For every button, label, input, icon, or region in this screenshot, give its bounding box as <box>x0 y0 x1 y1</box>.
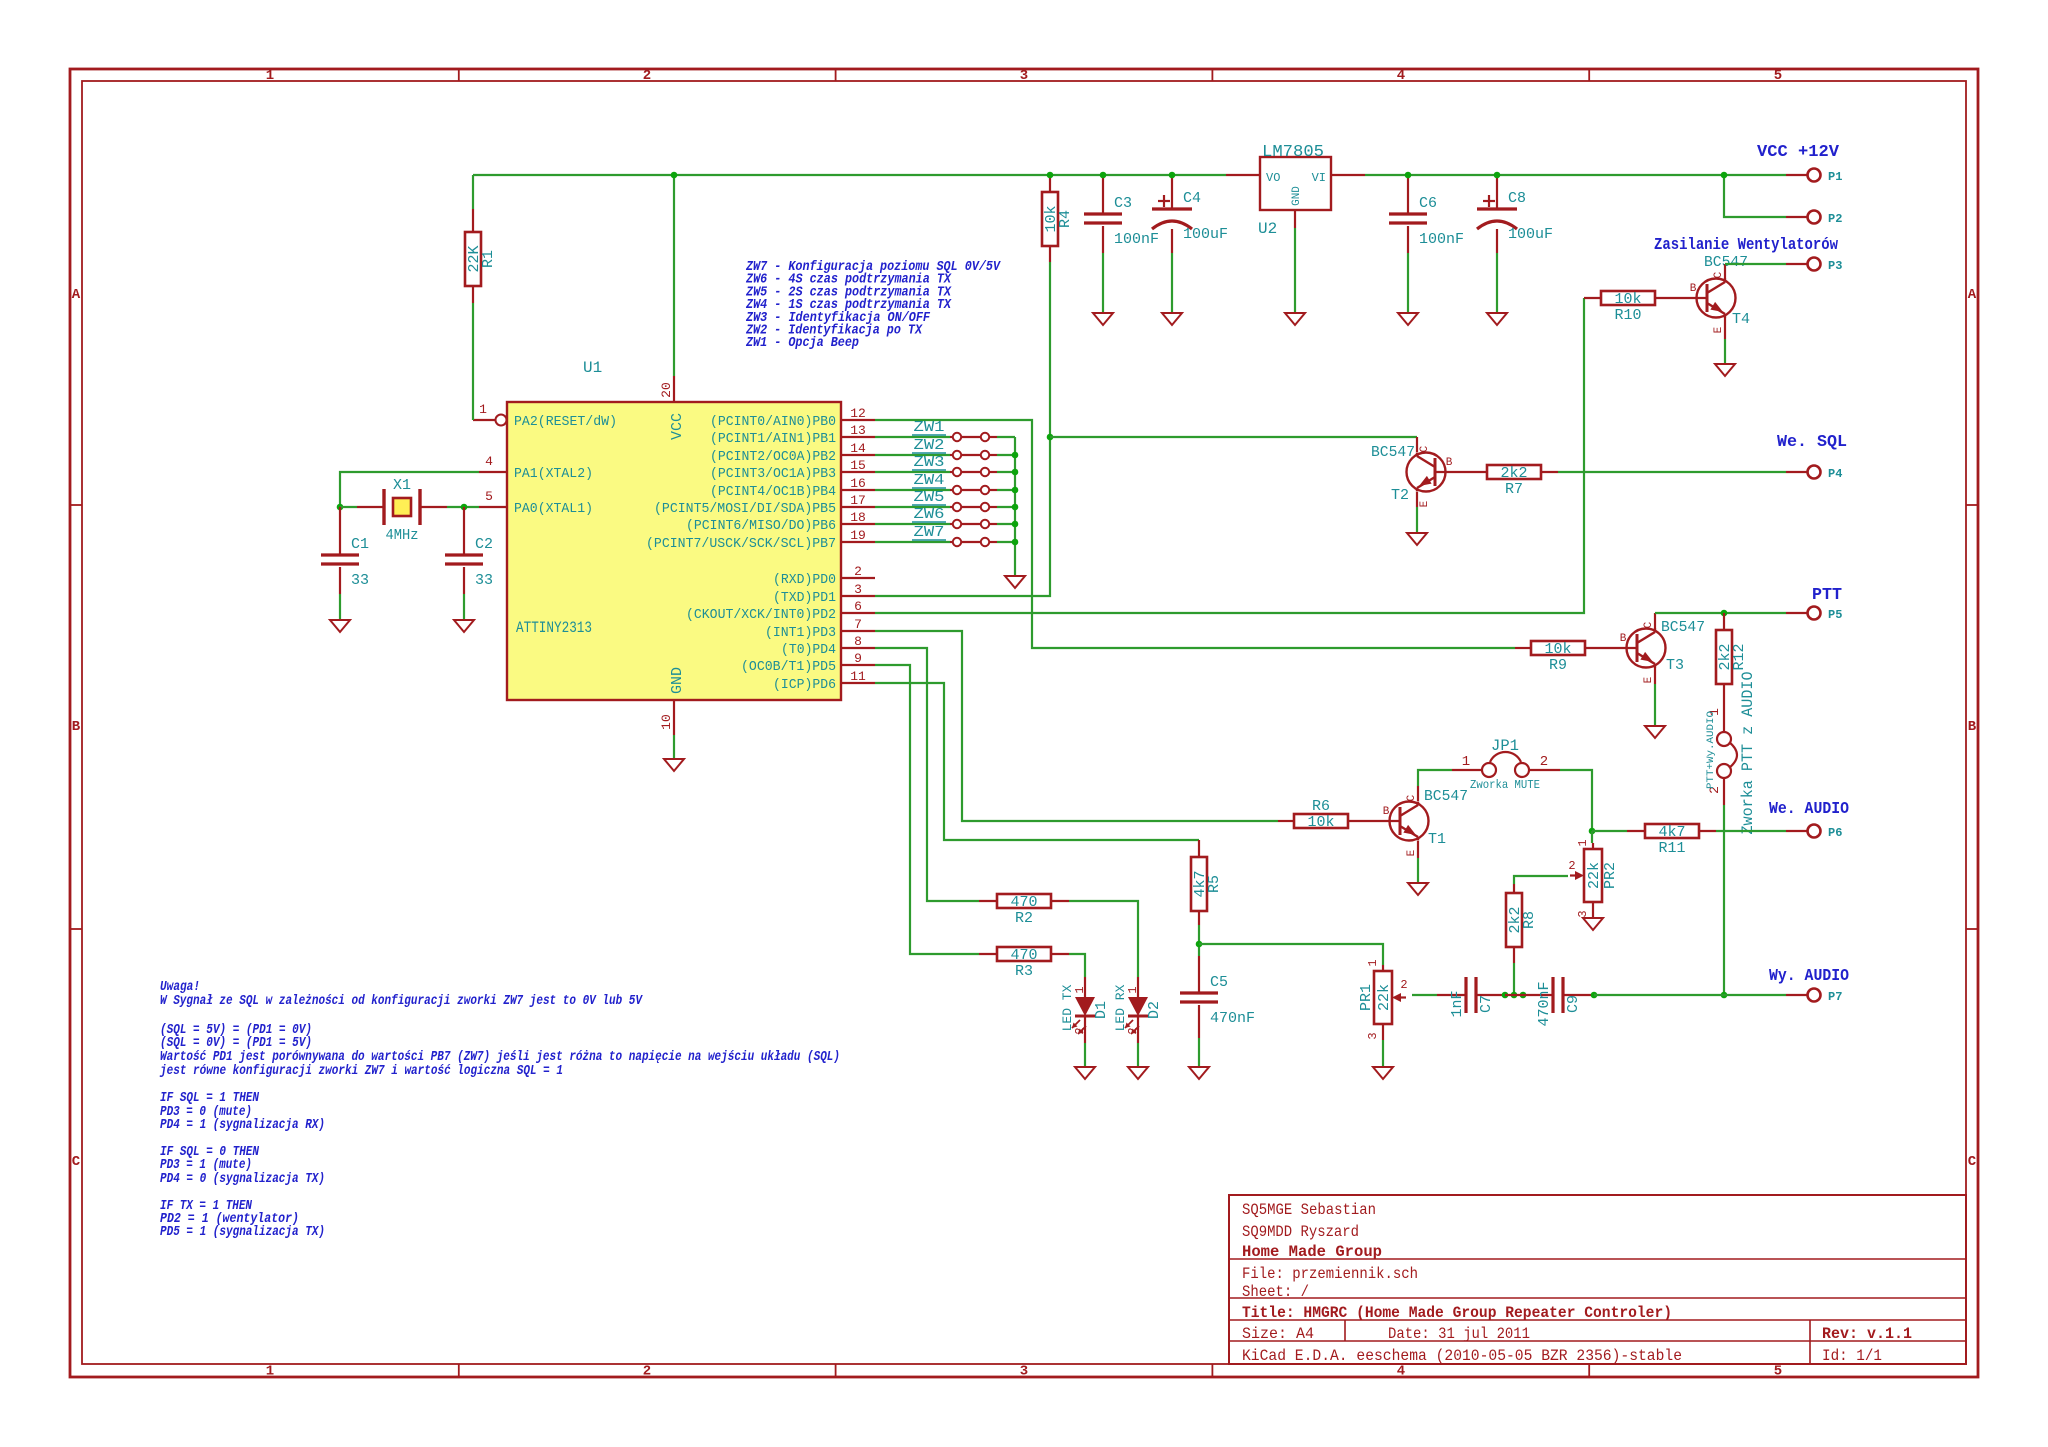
resistor R7 2k2 <box>1435 471 1558 473</box>
svg-text:C: C <box>1713 271 1725 278</box>
svg-text:PR2: PR2 <box>1602 862 1619 889</box>
wire T4 emitter to ground <box>1724 317 1726 339</box>
svg-text:PD4 = 1 (sygnalizacja RX): PD4 = 1 (sygnalizacja RX) <box>160 1118 325 1133</box>
wire pin6 to R10 <box>875 298 1584 613</box>
svg-text:470nF: 470nF <box>1210 1010 1255 1027</box>
svg-text:(CKOUT/XCK/INT0)PD2: (CKOUT/XCK/INT0)PD2 <box>686 607 836 623</box>
wire audio node to R11 <box>1592 830 1627 832</box>
svg-text:C1: C1 <box>351 536 369 553</box>
ground D2 <box>1128 1067 1148 1079</box>
svg-text:33: 33 <box>351 572 369 589</box>
svg-text:5: 5 <box>1774 1364 1782 1380</box>
label ZW6 <box>912 506 946 523</box>
svg-text:1: 1 <box>479 402 487 417</box>
svg-text:Date: 31 jul 2011: Date: 31 jul 2011 <box>1388 1325 1530 1343</box>
svg-text:17: 17 <box>850 493 866 508</box>
U1 pin 18 (PCINT6/MISO/DO)PB6 <box>686 510 875 534</box>
svg-text:1: 1 <box>1576 839 1590 846</box>
wire JP1 to audio node <box>1560 770 1592 831</box>
resistor R10 10k <box>1584 297 1707 299</box>
U1 pin 12 (PCINT0/AIN0)PB0 <box>710 406 875 430</box>
svg-text:C: C <box>1968 1154 1977 1170</box>
ground U1 <box>664 759 684 771</box>
wire PA1 to crystal left <box>340 472 479 507</box>
svg-text:C8: C8 <box>1508 190 1526 207</box>
wire U1 to jumper ZW2 <box>875 454 950 456</box>
resistor R11 4k7 <box>1627 830 1716 832</box>
junction crystal right <box>461 504 468 511</box>
wire T2 emitter to ground <box>1416 492 1418 507</box>
capacitor C5 470nF <box>1198 956 1200 1038</box>
junction C8 top <box>1494 172 1501 179</box>
title block outline <box>1229 1195 1966 1364</box>
svg-text:Id: 1/1: Id: 1/1 <box>1822 1347 1882 1365</box>
capacitor C2 33 <box>463 507 465 594</box>
label ZW7 <box>912 524 946 541</box>
svg-text:GND: GND <box>1291 186 1303 206</box>
svg-text:C: C <box>1643 621 1655 628</box>
wire C4 to ground <box>1171 253 1173 313</box>
junction R8 bottom <box>1511 992 1518 999</box>
junction C7 right <box>1502 992 1509 999</box>
svg-text:(PCINT2/OC0A)PB2: (PCINT2/OC0A)PB2 <box>710 449 836 465</box>
wire pin7 to R6 <box>875 631 1278 821</box>
junction C3 top <box>1100 172 1107 179</box>
ground C2 <box>454 620 474 632</box>
svg-text:1: 1 <box>1126 986 1140 993</box>
U1 pin 16 (PCINT4/OC1B)PB4 <box>710 476 875 500</box>
U1 pin 20 VCC <box>659 376 674 402</box>
svg-text:KiCad E.D.A. eeschema (2010-0: KiCad E.D.A. eeschema (2010-05-05 BZR 23… <box>1242 1347 1682 1365</box>
connector P5 <box>1786 607 1842 623</box>
potentiometer PR2 22k <box>1576 839 1593 849</box>
svg-text:D2: D2 <box>1146 1001 1163 1019</box>
wire PR2 wiper to R8 <box>1514 876 1568 884</box>
svg-text:jest równe konfiguracji zworki: jest równe konfiguracji zworki ZW7 i war… <box>159 1064 563 1079</box>
svg-text:T2: T2 <box>1391 487 1409 504</box>
svg-text:10k: 10k <box>1544 641 1571 658</box>
svg-text:Rev: v.1.1: Rev: v.1.1 <box>1822 1325 1912 1343</box>
svg-text:Zasilanie Wentylatorów: Zasilanie Wentylatorów <box>1654 236 1839 255</box>
U1 pin 5 PA0(XTAL1) <box>479 489 593 517</box>
wire U2 GND to ground <box>1294 228 1296 313</box>
jumper JP1 Zworka MUTE <box>1452 737 1560 792</box>
svg-text:Title: HMGRC (Home Made Group: Title: HMGRC (Home Made Group Repeater C… <box>1242 1304 1672 1322</box>
wire C6 to ground <box>1407 253 1409 313</box>
wire ZW4 to bus <box>997 489 1015 491</box>
svg-text:P6: P6 <box>1828 826 1842 840</box>
U1 pin 17 (PCINT5/MOSI/DI/SDA)PB5 <box>654 493 875 517</box>
wire R7 to P4 <box>1558 471 1786 473</box>
svg-text:PA1(XTAL2): PA1(XTAL2) <box>514 466 593 482</box>
U1 pin 15 (PCINT3/OC1A)PB3 <box>710 458 875 482</box>
junction P2 drop <box>1721 172 1728 179</box>
svg-text:2: 2 <box>1568 859 1575 873</box>
capacitor C9 470nF <box>1505 994 1594 996</box>
wire D2 to ground <box>1137 1016 1139 1043</box>
U1 pin 19 (PCINT7/USCK/SCK/SCL)PB7 <box>646 528 875 552</box>
wire C5 node to PR1 <box>1199 944 1383 965</box>
svg-text:R8: R8 <box>1521 911 1538 929</box>
svg-text:B: B <box>1446 457 1453 469</box>
svg-text:P5: P5 <box>1828 608 1842 622</box>
svg-text:C4: C4 <box>1183 190 1201 207</box>
svg-text:P4: P4 <box>1828 467 1842 481</box>
svg-text:R4: R4 <box>1057 210 1074 228</box>
ground C3 <box>1093 313 1113 325</box>
svg-text:C: C <box>1406 794 1418 801</box>
svg-text:1: 1 <box>1366 959 1380 966</box>
svg-text:GND: GND <box>669 667 686 694</box>
svg-text:9: 9 <box>854 651 862 666</box>
LED D2 LED RX <box>1137 977 1139 997</box>
svg-text:1: 1 <box>266 68 274 84</box>
ground ZW bus <box>1005 576 1025 588</box>
connector P7 <box>1786 989 1842 1005</box>
svg-text:4: 4 <box>1397 1364 1405 1380</box>
wire U1 to jumper ZW4 <box>875 489 950 491</box>
wire ZW6 to bus <box>997 523 1015 525</box>
svg-text:PTT+Wy.AUDIO: PTT+Wy.AUDIO <box>1706 711 1717 789</box>
svg-text:ZW6: ZW6 <box>914 506 945 523</box>
svg-text:(T0)PD4: (T0)PD4 <box>781 642 836 658</box>
svg-text:Wy. AUDIO: Wy. AUDIO <box>1769 967 1849 986</box>
junction VCC pin20 <box>671 172 678 179</box>
svg-text:P2: P2 <box>1828 212 1842 226</box>
svg-text:Size: A4: Size: A4 <box>1242 1325 1314 1343</box>
U1 pin 9 (OC0B/T1)PD5 <box>741 651 875 675</box>
jumper ZW2 <box>950 451 997 459</box>
label ZW1 <box>912 419 946 436</box>
svg-text:SQ5MGE Sebastian: SQ5MGE Sebastian <box>1242 1201 1376 1219</box>
junction ZW bus <box>1012 487 1019 494</box>
svg-text:JP1: JP1 <box>1491 737 1519 755</box>
svg-text:5: 5 <box>1774 68 1782 84</box>
svg-text:SQ9MDD Ryszard: SQ9MDD Ryszard <box>1242 1223 1359 1241</box>
svg-text:3: 3 <box>1366 1032 1380 1039</box>
wire crystal left short <box>340 506 357 508</box>
wire R3 to D1 <box>1069 954 1085 977</box>
svg-text:ZW1: ZW1 <box>914 419 945 436</box>
svg-text:4MHz: 4MHz <box>386 527 419 544</box>
svg-text:LM7805: LM7805 <box>1262 143 1324 162</box>
transistor T2 BC547 mirrored <box>1416 437 1418 452</box>
svg-text:8: 8 <box>854 634 862 649</box>
svg-text:(PCINT4/OC1B)PB4: (PCINT4/OC1B)PB4 <box>710 484 836 500</box>
wire C8 to ground <box>1496 253 1498 313</box>
wire R2 to D2 <box>1069 901 1138 977</box>
svg-text:ZW5: ZW5 <box>914 489 945 506</box>
wire PR2 pin1 from audio node <box>1591 831 1593 843</box>
ground C5 <box>1189 1067 1209 1079</box>
svg-text:C2: C2 <box>475 536 493 553</box>
svg-text:D1: D1 <box>1093 1001 1110 1019</box>
svg-text:5: 5 <box>485 489 493 504</box>
U1 pin 13 (PCINT1/AIN1)PB1 <box>710 423 875 447</box>
svg-text:PD5 = 1 (sygnalizacja TX): PD5 = 1 (sygnalizacja TX) <box>160 1225 325 1240</box>
svg-text:E: E <box>1713 326 1725 333</box>
capacitor C7 1nF <box>1437 994 1505 996</box>
junction ZW bus <box>1012 521 1019 528</box>
svg-text:X1: X1 <box>393 477 411 494</box>
wire ZW7 to bus <box>997 541 1015 543</box>
transistor T3 BC547 <box>1620 621 1666 683</box>
svg-text:2: 2 <box>1540 754 1548 770</box>
svg-text:T3: T3 <box>1666 657 1684 674</box>
wire C2 to ground <box>463 594 465 620</box>
svg-text:470: 470 <box>1010 947 1037 964</box>
wire U1 to jumper ZW1 <box>875 436 950 438</box>
svg-text:22k: 22k <box>1376 984 1393 1011</box>
svg-text:10k: 10k <box>1614 291 1641 308</box>
LED D1 LED TX <box>1084 977 1086 997</box>
resistor R6 10k <box>1278 820 1400 822</box>
svg-text:R3: R3 <box>1015 963 1033 980</box>
svg-text:Home Made Group: Home Made Group <box>1242 1243 1382 1261</box>
svg-text:2: 2 <box>643 1364 651 1380</box>
svg-text:A: A <box>1968 287 1977 303</box>
svg-text:ZW4: ZW4 <box>914 472 945 489</box>
ground C1 <box>330 620 350 632</box>
svg-text:E: E <box>1419 500 1431 507</box>
wire pin12 to R9 <box>875 420 1515 648</box>
wire U1 to jumper ZW7 <box>875 541 950 543</box>
wire R8 to Wy AUDIO row <box>1513 963 1515 995</box>
svg-text:R7: R7 <box>1505 481 1523 498</box>
svg-text:BC547: BC547 <box>1661 619 1705 636</box>
svg-text:16: 16 <box>850 476 866 491</box>
connector P6 <box>1786 825 1842 841</box>
svg-text:10k: 10k <box>1307 814 1334 831</box>
svg-text:R12: R12 <box>1731 643 1748 670</box>
svg-text:VO: VO <box>1266 171 1280 185</box>
connector P4 <box>1786 466 1842 482</box>
potentiometer PR1 22k <box>1366 959 1383 971</box>
jumper ZW4 <box>950 486 997 494</box>
regulator U2 LM7805 <box>1226 143 1365 238</box>
svg-text:Uwaga!: Uwaga! <box>160 980 200 995</box>
ground C6 <box>1398 313 1418 325</box>
ground C8 <box>1487 313 1507 325</box>
svg-text:E: E <box>1406 849 1418 856</box>
svg-text:T1: T1 <box>1428 831 1446 848</box>
PR1 pin3 ground <box>1366 1024 1383 1040</box>
wire T4 collector to P3 <box>1724 264 1726 279</box>
junction ZW bus <box>1012 539 1019 546</box>
svg-text:1: 1 <box>1462 754 1470 770</box>
label ZW5 <box>912 489 946 506</box>
svg-text:7: 7 <box>854 617 862 632</box>
wire T3 emitter to ground <box>1654 667 1656 684</box>
svg-text:2: 2 <box>854 564 862 579</box>
svg-text:PD4 = 0 (sygnalizacja TX): PD4 = 0 (sygnalizacja TX) <box>160 1172 325 1187</box>
transistor T4 BC547 <box>1690 271 1736 333</box>
capacitor C4 100uF <box>1171 175 1173 253</box>
ground D1 <box>1075 1067 1095 1079</box>
svg-text:1: 1 <box>266 1364 274 1380</box>
resistor R2 470 <box>979 900 1069 902</box>
svg-text:C3: C3 <box>1114 195 1132 212</box>
svg-text:C7: C7 <box>1478 995 1495 1013</box>
svg-text:T4: T4 <box>1732 311 1750 328</box>
svg-text:BC547: BC547 <box>1371 444 1415 461</box>
svg-text:(ICP)PD6: (ICP)PD6 <box>773 677 836 693</box>
svg-text:(PCINT6/MISO/DO)PB6: (PCINT6/MISO/DO)PB6 <box>686 518 836 534</box>
svg-text:(RXD)PD0: (RXD)PD0 <box>773 572 836 588</box>
svg-text:470: 470 <box>1010 894 1037 911</box>
svg-text:ZW7: ZW7 <box>914 524 945 541</box>
svg-text:ATTINY2313: ATTINY2313 <box>516 619 592 637</box>
junction C5 node <box>1196 941 1203 948</box>
svg-text:(PCINT3/OC1A)PB3: (PCINT3/OC1A)PB3 <box>710 466 836 482</box>
svg-text:U1: U1 <box>583 359 602 377</box>
label ZW3 <box>912 454 946 471</box>
U1 pin 14 (PCINT2/OC0A)PB2 <box>710 441 875 465</box>
svg-text:Wartość PD1 jest porównywana d: Wartość PD1 jest porównywana do wartości… <box>160 1050 840 1065</box>
svg-text:100uF: 100uF <box>1183 226 1228 243</box>
svg-text:3: 3 <box>854 582 862 597</box>
svg-text:R10: R10 <box>1614 307 1641 324</box>
wire ZW ground bus <box>1014 437 1016 576</box>
svg-text:15: 15 <box>850 458 866 473</box>
svg-text:R11: R11 <box>1658 840 1685 857</box>
U1 pin 1 PA2(RESET/dW) <box>473 402 617 430</box>
svg-text:Zworka PTT z AUDIO: Zworka PTT z AUDIO <box>1739 672 1757 835</box>
junction ZW bus <box>1012 469 1019 476</box>
svg-text:B: B <box>1690 283 1697 295</box>
svg-text:1: 1 <box>1073 986 1087 993</box>
svg-text:2k2: 2k2 <box>1500 465 1527 482</box>
wire VCC rail right <box>1365 174 1786 176</box>
wire ZW2 to bus <box>997 454 1015 456</box>
label ZW4 <box>912 472 946 489</box>
junction ZW bus <box>1012 504 1019 511</box>
junction Wy AUDIO <box>1721 992 1728 999</box>
svg-text:File: przemiennik.sch: File: przemiennik.sch <box>1242 1265 1418 1283</box>
wire C3 to ground <box>1102 253 1104 313</box>
svg-text:P1: P1 <box>1828 170 1842 184</box>
svg-text:VI: VI <box>1312 171 1326 185</box>
svg-text:22k: 22k <box>1586 862 1603 889</box>
wire R1 top from rail <box>472 175 474 209</box>
svg-text:C9: C9 <box>1565 995 1582 1013</box>
junction C9 right <box>1591 992 1598 999</box>
svg-text:Sheet: /: Sheet: / <box>1242 1283 1309 1301</box>
wire D1 to ground <box>1084 1016 1086 1043</box>
ground T4 <box>1715 364 1735 376</box>
wire ZW3 to bus <box>997 471 1015 473</box>
wire P2 drop <box>1724 175 1786 217</box>
connector P1 <box>1786 169 1842 185</box>
svg-text:11: 11 <box>850 669 866 684</box>
svg-text:B: B <box>72 719 81 735</box>
ground T2 <box>1407 533 1427 545</box>
resistor R12 2k2 <box>1723 613 1725 732</box>
resistor R8 2k2 <box>1513 884 1515 963</box>
svg-text:PTT: PTT <box>1812 586 1842 605</box>
svg-text:(INT1)PD3: (INT1)PD3 <box>765 625 836 641</box>
svg-text:4k7: 4k7 <box>1658 824 1685 841</box>
svg-text:100nF: 100nF <box>1419 231 1464 248</box>
wire R11 to P6 <box>1716 830 1786 832</box>
wire jumper2 to Wy AUDIO row <box>1723 805 1725 995</box>
junction C6 top <box>1405 172 1412 179</box>
junction crystal left <box>337 504 344 511</box>
wire T1 collector to JP1 <box>1417 786 1419 801</box>
wire U1 to jumper ZW3 <box>875 471 950 473</box>
svg-text:2: 2 <box>1400 978 1407 992</box>
svg-text:18: 18 <box>850 510 866 525</box>
svg-text:PA2(RESET/dW): PA2(RESET/dW) <box>514 414 617 430</box>
junction SQL node <box>1047 434 1054 441</box>
wire U1 GND pin to ground <box>673 735 675 759</box>
ground C4 <box>1162 313 1182 325</box>
svg-text:U2: U2 <box>1258 220 1277 238</box>
svg-text:C6: C6 <box>1419 195 1437 212</box>
jumper Zworka PTT z AUDIO <box>1706 672 1757 835</box>
svg-text:(PCINT1/AIN1)PB1: (PCINT1/AIN1)PB1 <box>710 431 836 447</box>
title block text <box>1242 1201 1912 1365</box>
note Uwaga text block <box>159 980 840 1240</box>
frame row letters <box>72 287 1977 1170</box>
svg-text:PA0(XTAL1): PA0(XTAL1) <box>514 501 593 517</box>
jumper ZW3 <box>950 468 997 476</box>
wire U1 to jumper ZW6 <box>875 523 950 525</box>
capacitor C3 100nF <box>1102 175 1104 253</box>
jumper ZW6 <box>950 520 997 528</box>
junction ZW bus <box>1012 452 1019 459</box>
svg-text:14: 14 <box>850 441 866 456</box>
svg-text:B: B <box>1968 719 1977 735</box>
svg-text:3: 3 <box>1020 1364 1028 1380</box>
svg-text:E: E <box>1643 676 1655 683</box>
U1 pin 10 GND <box>659 700 674 735</box>
svg-text:P3: P3 <box>1828 259 1842 273</box>
svg-text:PD3 = 1 (mute): PD3 = 1 (mute) <box>160 1158 252 1173</box>
wire R5 to C5 node <box>1198 925 1200 956</box>
wire crystal right to PA0 <box>447 506 479 508</box>
svg-text:2: 2 <box>643 68 651 84</box>
svg-text:ZW1 - Opcja Beep: ZW1 - Opcja Beep <box>745 336 859 351</box>
svg-text:B: B <box>1383 806 1390 818</box>
svg-text:PR1: PR1 <box>1358 984 1375 1011</box>
junction C9 left <box>1520 992 1527 999</box>
wire pin11 to R5 <box>875 683 1199 840</box>
junction R4 top <box>1047 172 1054 179</box>
svg-text:1nF: 1nF <box>1449 990 1466 1017</box>
jumper ZW5 <box>950 503 997 511</box>
resistor R9 10k <box>1515 647 1637 649</box>
svg-text:12: 12 <box>850 406 866 421</box>
svg-text:VCC: VCC <box>669 413 686 440</box>
transistor T1 BC547 <box>1383 794 1429 856</box>
U1 pin 6 (CKOUT/XCK/INT0)PD2 <box>686 599 875 623</box>
U1 pin 11 (ICP)PD6 <box>773 669 875 693</box>
resistor R1 22K <box>472 209 474 232</box>
U1 pin 2 (RXD)PD0 <box>773 564 875 588</box>
svg-text:R1: R1 <box>480 250 497 268</box>
jumper ZW1 <box>950 433 997 441</box>
svg-text:4: 4 <box>1397 68 1405 84</box>
connector P2 <box>1786 211 1842 227</box>
svg-text:P7: P7 <box>1828 990 1842 1004</box>
svg-text:We. AUDIO: We. AUDIO <box>1769 800 1849 819</box>
wire PR1 wiper to C7 <box>1412 994 1437 996</box>
junction C4 top <box>1169 172 1176 179</box>
svg-text:A: A <box>72 287 81 303</box>
svg-text:(TXD)PD1: (TXD)PD1 <box>773 590 836 606</box>
capacitor C8 100uF <box>1496 175 1498 253</box>
